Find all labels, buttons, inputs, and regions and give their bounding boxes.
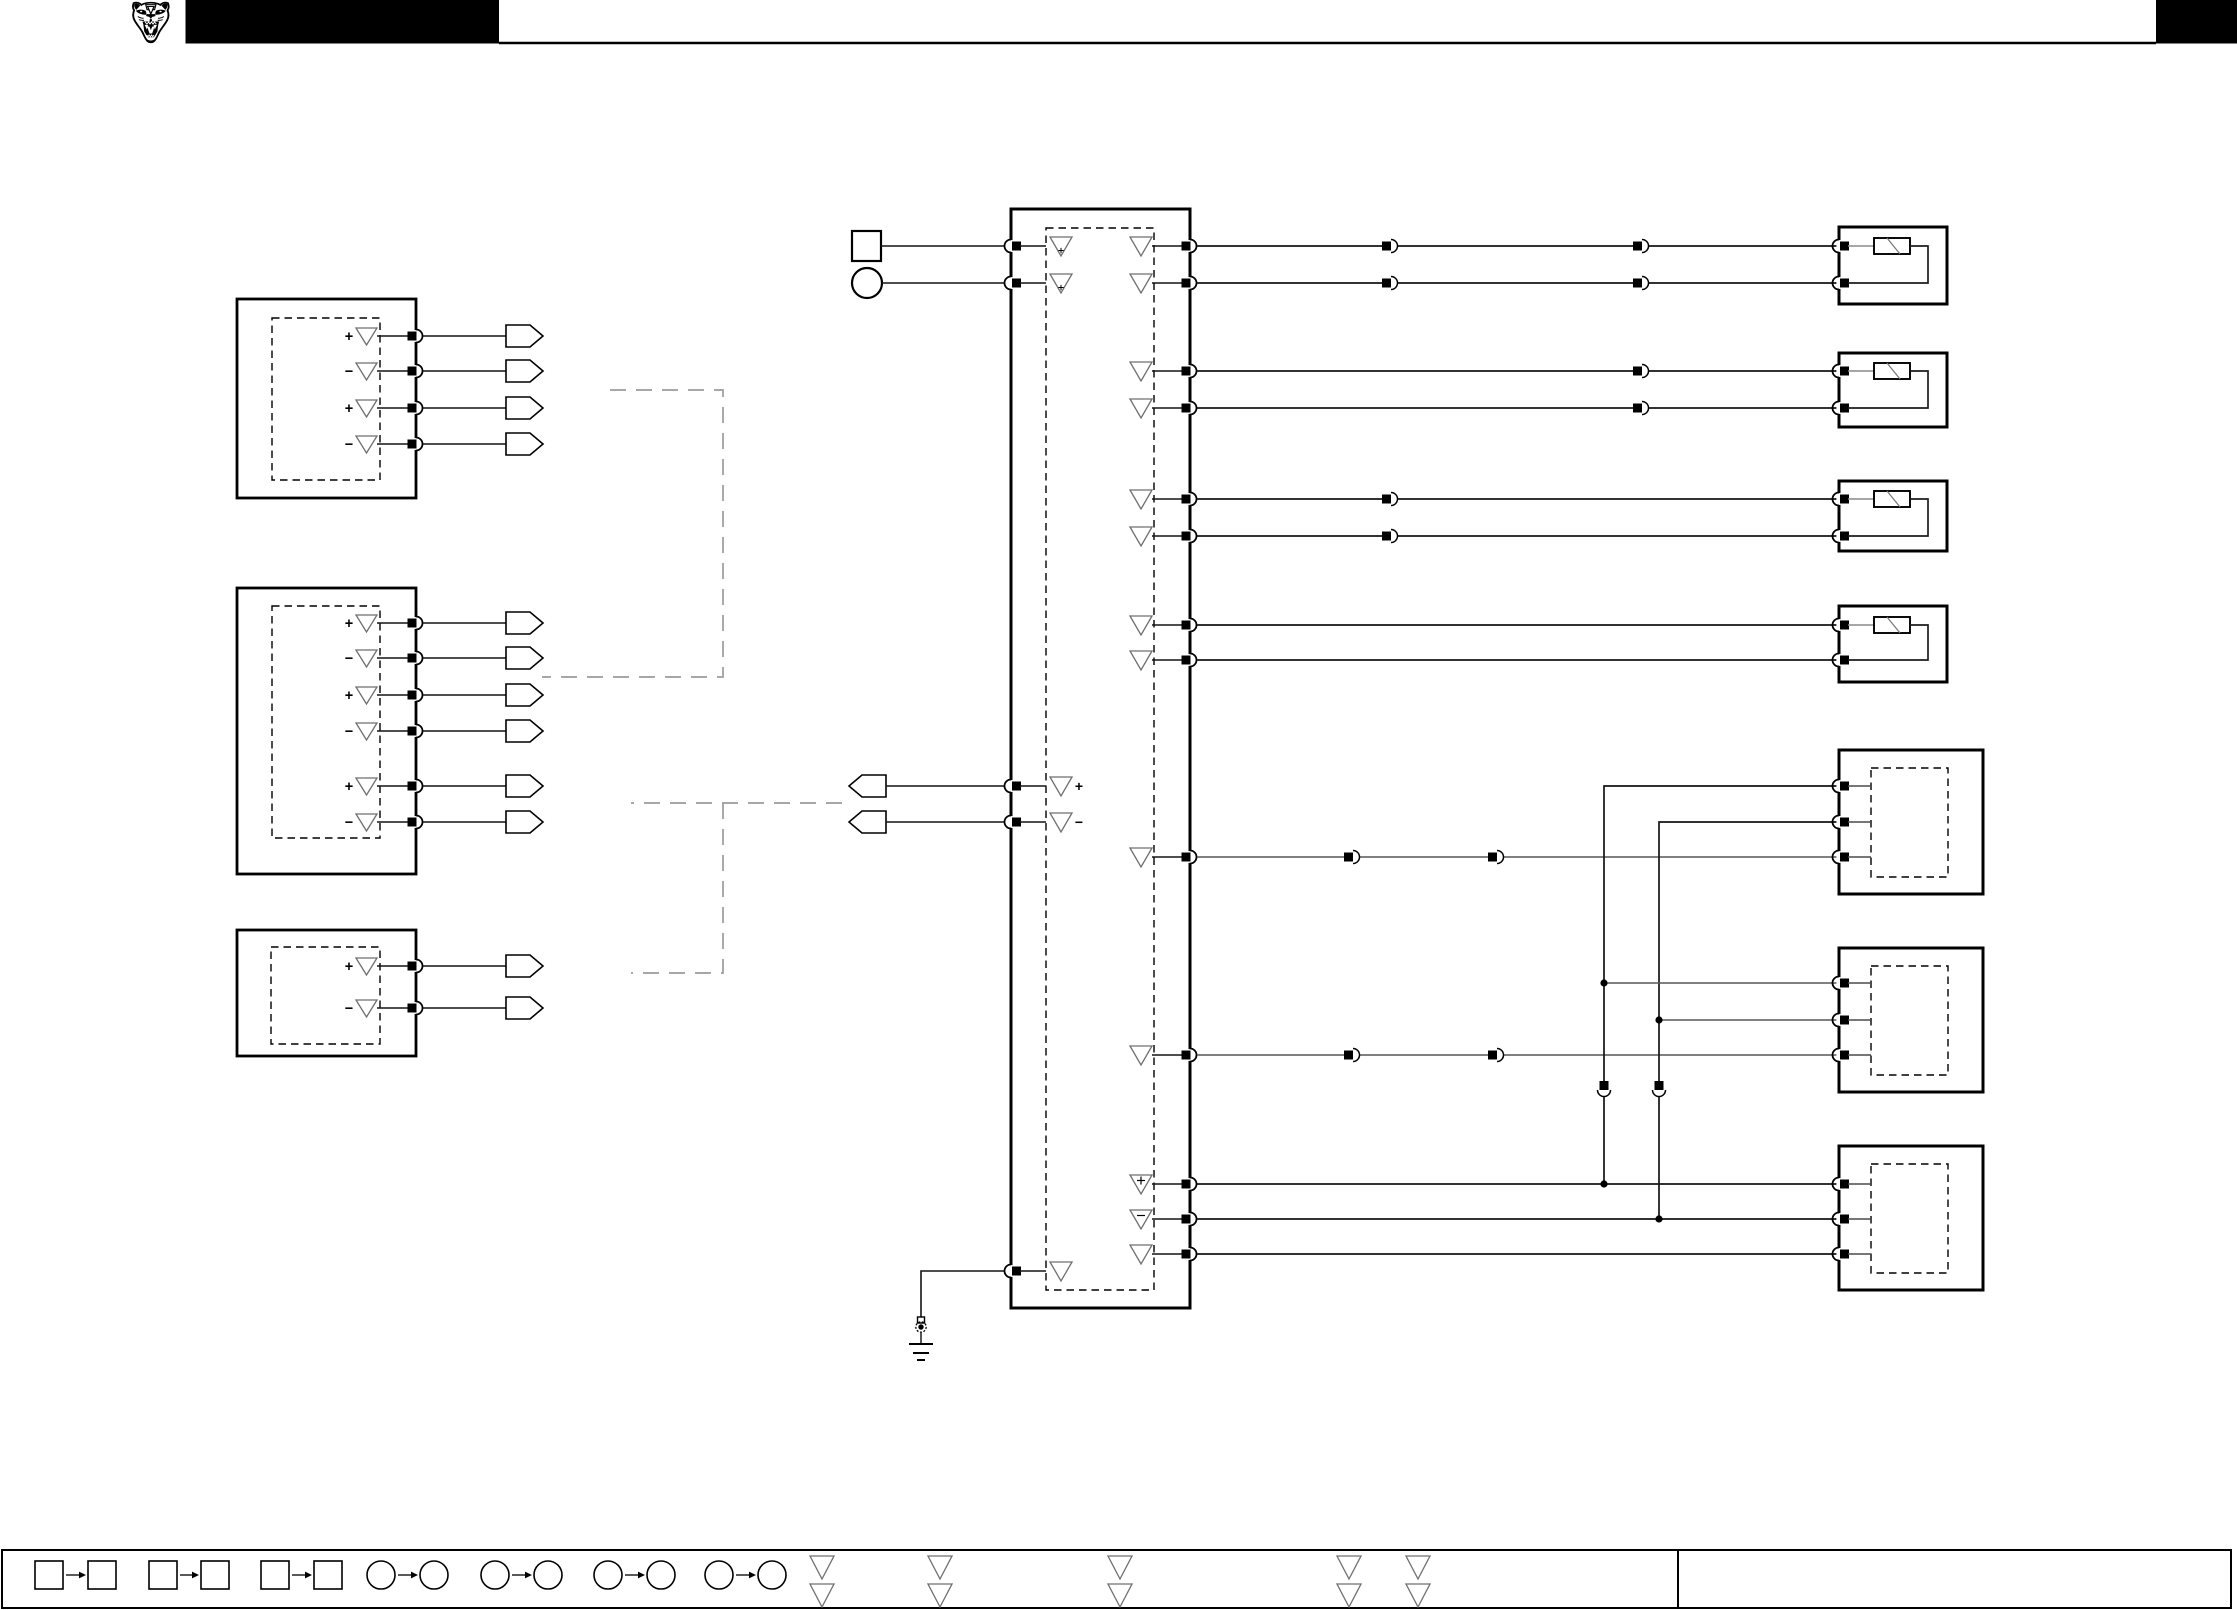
wire: output row y408 triangle to pad <box>1152 407 1182 409</box>
component box B1 (top left) outline <box>237 299 416 498</box>
wire: speaker SP1 (front) pin 3 into speaker <box>1848 856 1871 858</box>
in-line connector on amplifier out to tweeter T1 - at x1641 <box>1633 277 1649 290</box>
wire: component box B2 (middle left) pin 1 to pad <box>377 622 408 624</box>
component box B3 (bottom left) internal dashed boundary <box>271 947 380 1044</box>
wire: component box B2 (middle left) pin 2 to pad <box>377 657 408 659</box>
amplifier internal pin triangle (battery feed) <box>1050 237 1072 256</box>
off-page arrow input + (audio in) <box>849 775 886 797</box>
off-page connector arrow for component box B3 (bottom left) pin 2 <box>506 997 543 1019</box>
wire: battery feed pad into module <box>1020 245 1046 247</box>
wire: output row y1254 triangle to pad <box>1152 1253 1182 1255</box>
speaker SP2 (middle) pin 1 pad <box>1833 977 1849 990</box>
junction V2 / SP3 - wire <box>1655 1215 1662 1222</box>
wire: output row y1184 triangle to pad <box>1152 1183 1182 1185</box>
svg-text:+: + <box>345 329 353 345</box>
amplifier right pin pad: output row y660 <box>1182 654 1197 667</box>
tweeter T2 voice coil element <box>1874 363 1910 379</box>
speaker SP2 (middle) internal dashed boundary <box>1871 966 1948 1075</box>
wire: component box B2 (middle left) pin 1 pad to off-page arrow <box>423 622 506 624</box>
in-line connector on bus V1 <box>1598 1081 1611 1097</box>
tiny + inside triangle (battery feed) <box>1058 250 1063 252</box>
component box B2 (middle left) pin 6 pad and connector bump <box>408 816 423 829</box>
wire: component box B2 (middle left) pin 4 to pad <box>377 730 408 732</box>
component box B1 (top left) pin 2 pad and connector bump <box>408 365 423 378</box>
component box B1 (top left) pin 4 triangle <box>356 436 377 453</box>
amplifier right pin pad: output row y857 <box>1182 851 1197 864</box>
component box B2 (middle left) pin 5 triangle <box>356 778 377 795</box>
wire: amplifier out to tweeter T4 - <box>1197 659 1839 661</box>
off-page connector arrow for component box B2 (middle left) pin 2 <box>506 647 543 669</box>
wire: amplifier out to tweeter T1 + <box>1197 245 1839 247</box>
wire: amplifier out + to speaker SP3 <box>1197 1183 1839 1185</box>
wire: bus vertical V1 (speaker feed +) <box>1604 786 1839 1184</box>
wire: component box B1 (top left) pin 1 pad to off-page arrow <box>423 335 506 337</box>
wire: component box B1 (top left) pin 4 to pad <box>377 443 408 445</box>
component box B1 (top left) pin 1 pad and connector bump <box>408 330 423 343</box>
svg-text:+: + <box>1075 778 1083 794</box>
junction V1 / SP2 branch <box>1600 979 1607 986</box>
wire: output row y625 triangle to pad <box>1152 624 1182 626</box>
amplifier internal pin triangle (output row y371) <box>1130 362 1152 381</box>
legend: connector square pair 2 <box>149 1561 229 1589</box>
tweeter T4 outline <box>1839 606 1947 682</box>
speaker SP3 (rear) internal dashed boundary <box>1871 1164 1948 1273</box>
input symbol: circle (power return) <box>852 268 882 298</box>
component box B2 (middle left) pin 1 triangle <box>356 615 377 632</box>
wire: component box B1 (top left) pin 3 to pad <box>377 407 408 409</box>
wire: component box B3 (bottom left) pin 1 pad to off-page arrow <box>423 965 506 967</box>
in-line connector on amplifier out to tweeter T1 + at x1641 <box>1633 240 1649 253</box>
wire: speaker SP2 (middle) pin 3 into speaker <box>1848 1054 1871 1056</box>
amplifier internal pin triangle (output row y1055) <box>1130 1046 1152 1065</box>
component box B3 (bottom left) pin 1 triangle <box>356 958 377 975</box>
amplifier left pin: audio in - pad <box>1005 816 1021 829</box>
wire: speaker SP3 (rear) pin 1 into speaker <box>1848 1183 1871 1185</box>
Jaguar growler logo <box>133 3 169 43</box>
amplifier right pin pad: output row y1184 <box>1182 1178 1197 1191</box>
wire: speaker SP2 (middle) pin 2 into speaker <box>1848 1019 1871 1021</box>
junction V1 / SP3 + wire <box>1600 1180 1607 1187</box>
speaker SP1 (front) pin 2 pad <box>1833 816 1849 829</box>
wire: audio input - to amplifier <box>886 821 1004 823</box>
gray dashed reference route 1 <box>542 390 723 677</box>
legend: splice triangle column 3 <box>1108 1556 1132 1607</box>
wire: amplifier out to tweeter T2 + <box>1197 370 1839 372</box>
component box B3 (bottom left) pin 2 pad and connector bump <box>408 1002 423 1015</box>
amplifier module outline <box>1011 209 1190 1308</box>
wire: amplifier out to tweeter T3 + <box>1197 498 1839 500</box>
wire: amplifier signal to speaker SP1 <box>1197 856 1839 858</box>
component box B1 (top left) pin 2 triangle <box>356 363 377 380</box>
tweeter T4 pin pads <box>1833 619 1849 667</box>
ground symbol G <box>909 1344 933 1360</box>
legend: splice triangle column 2 <box>928 1556 952 1607</box>
speaker SP2 (middle) pin 2 pad <box>1833 1014 1849 1027</box>
amplifier internal pin triangle (output row y625) <box>1130 616 1152 635</box>
gray dashed reference route 2 (lower elbow) <box>631 803 723 973</box>
svg-text:+: + <box>345 616 353 632</box>
off-page connector arrow for component box B1 (top left) pin 1 <box>506 325 543 347</box>
amplifier internal pin triangle (ground pin) <box>1050 1262 1072 1281</box>
wire: component box B3 (bottom left) pin 2 pad to off-page arrow <box>423 1007 506 1009</box>
legend bar divider <box>1677 1550 1679 1608</box>
svg-text:+: + <box>345 401 353 417</box>
legend: connector square pair 1 <box>35 1561 116 1589</box>
svg-text:−: − <box>345 364 353 380</box>
header horizontal rule <box>499 42 2156 45</box>
off-page connector arrow for component box B3 (bottom left) pin 1 <box>506 955 543 977</box>
wire: battery return pad into module <box>1020 282 1046 284</box>
off-page connector arrow for component box B2 (middle left) pin 5 <box>506 775 543 797</box>
wire: component box B2 (middle left) pin 2 pad to off-page arrow <box>423 657 506 659</box>
tiny + inside triangle (battery return) <box>1058 287 1063 289</box>
wire: V2 branch to speaker SP2 pin2 <box>1659 1019 1839 1021</box>
in-line connector on amplifier signal to speaker SP1 at x1352 <box>1344 851 1360 864</box>
svg-text:−: − <box>1075 814 1083 830</box>
wire: tweeter T4 pin1 to voice coil <box>1848 624 1874 626</box>
amplifier internal pin triangle (output row y283) <box>1130 274 1152 293</box>
component box B2 (middle left) pin 2 triangle <box>356 650 377 667</box>
svg-text:−: − <box>345 437 353 453</box>
tweeter T1 pin pads <box>1833 240 1849 290</box>
amplifier right pin pad: output row y283 <box>1182 277 1197 290</box>
wire: output row y246 triangle to pad <box>1152 245 1182 247</box>
speaker SP3 (rear) pin 1 pad <box>1833 1178 1849 1191</box>
wire: square input to amplifier pin <box>881 245 1004 247</box>
amplifier right pin pad: output row y625 <box>1182 619 1197 632</box>
tweeter T2 outline <box>1839 353 1947 427</box>
tweeter T4 voice coil element <box>1874 617 1910 633</box>
legend: connector circle pair 2 <box>481 1561 562 1589</box>
amplifier internal pin triangle (output row y499) <box>1130 490 1152 509</box>
tweeter T3 outline <box>1839 481 1947 551</box>
wire: tweeter T1 coil loop to pin2 <box>1848 246 1928 283</box>
speaker SP3 (rear) outline <box>1839 1146 1983 1290</box>
in-line connector on amplifier out to tweeter T2 - at x1641 <box>1633 402 1649 415</box>
in-line connector on amplifier signal to speaker SP1 at x1496 <box>1488 851 1504 864</box>
svg-text:+: + <box>345 688 353 704</box>
amplifier internal pin triangle (output row y536) <box>1130 527 1152 546</box>
- mark inside triangle (output row y1219) <box>1137 1215 1145 1217</box>
amplifier right pin pad: output row y1219 <box>1182 1213 1197 1226</box>
amplifier right pin pad: output row y1055 <box>1182 1049 1197 1062</box>
amplifier left pin: audio in + pad <box>1005 780 1021 793</box>
wire: output row y371 triangle to pad <box>1152 370 1182 372</box>
amplifier right pin pad: output row y536 <box>1182 530 1197 543</box>
wire: output row y283 triangle to pad <box>1152 282 1182 284</box>
component box B1 (top left) pin 3 pad and connector bump <box>408 402 423 415</box>
wire: ground pin pad into module <box>1020 1270 1046 1272</box>
speaker SP3 (rear) pin 3 pad <box>1833 1248 1849 1261</box>
amplifier left pin: battery feed pad <box>1005 240 1021 253</box>
svg-text:+: + <box>345 959 353 975</box>
component box B3 (bottom left) pin 1 pad and connector bump <box>408 960 423 973</box>
wire: output row y536 triangle to pad <box>1152 535 1182 537</box>
legend: connector circle pair 4 <box>705 1561 786 1589</box>
wire: speaker SP1 (front) pin 1 into speaker <box>1848 785 1871 787</box>
amplifier right pin pad: output row y499 <box>1182 493 1197 506</box>
in-line connector on amplifier out to tweeter T2 + at x1641 <box>1633 365 1649 378</box>
off-page connector arrow for component box B1 (top left) pin 3 <box>506 397 543 419</box>
amplifier internal pin triangle (output row y246) <box>1130 237 1152 256</box>
speaker SP1 (front) pin 1 pad <box>1833 780 1849 793</box>
wire: circle input to amplifier pin <box>882 282 1004 284</box>
component box B2 (middle left) pin 2 pad and connector bump <box>408 652 423 665</box>
wire: amplifier out to tweeter T1 - <box>1197 282 1839 284</box>
component box B2 (middle left) pin 5 pad and connector bump <box>408 780 423 793</box>
wire: component box B2 (middle left) pin 6 to pad <box>377 821 408 823</box>
svg-text:+: + <box>345 779 353 795</box>
legend: splice triangle column 1 <box>810 1556 834 1607</box>
svg-text:−: − <box>345 1001 353 1017</box>
in-line connector on amplifier signal to speaker SP2 at x1352 <box>1344 1049 1360 1062</box>
tweeter T1 voice coil element <box>1874 238 1910 254</box>
tweeter T2 pin pads <box>1833 365 1849 415</box>
legend bar frame <box>2 1550 2231 1608</box>
amplifier internal pin triangle (output row y408) <box>1130 399 1152 418</box>
wire: speaker SP1 (front) pin 2 into speaker <box>1848 821 1871 823</box>
legend: connector square pair 3 <box>261 1561 342 1589</box>
off-page connector arrow for component box B1 (top left) pin 2 <box>506 360 543 382</box>
component box B3 (bottom left) pin 2 triangle <box>356 1000 377 1017</box>
amplifier internal pin triangle (output row y1219) <box>1130 1210 1152 1229</box>
wire: amplifier out to tweeter T4 + <box>1197 624 1839 626</box>
wire: tweeter T4 coil loop to pin2 <box>1848 625 1928 660</box>
wire: component box B2 (middle left) pin 3 to pad <box>377 694 408 696</box>
speaker SP1 (front) internal dashed boundary <box>1871 768 1948 877</box>
amplifier internal pin triangle (battery return) <box>1050 274 1072 293</box>
component box B1 (top left) pin 3 triangle <box>356 400 377 417</box>
wire: audio input + to amplifier <box>886 785 1004 787</box>
legend: connector circle pair 1 <box>367 1561 448 1589</box>
wire: amplifier ground pin to ground stud <box>921 1271 1004 1317</box>
amplifier internal pin triangle (output row y857) <box>1130 848 1152 867</box>
wire: component box B1 (top left) pin 3 pad to off-page arrow <box>423 407 506 409</box>
wire: component box B2 (middle left) pin 4 pad to off-page arrow <box>423 730 506 732</box>
tweeter T1 outline <box>1839 227 1947 304</box>
wire: component box B3 (bottom left) pin 1 to pad <box>377 965 408 967</box>
amplifier internal pin triangle (output row y1184) <box>1130 1175 1152 1194</box>
tweeter T3 voice coil element <box>1874 491 1910 507</box>
wire: V1 branch to speaker SP2 pin1 <box>1604 982 1839 984</box>
component box B3 (bottom left) outline <box>237 930 416 1056</box>
component box B2 (middle left) pin 4 triangle <box>356 723 377 740</box>
tweeter T3 pin pads <box>1833 493 1849 543</box>
component box B2 (middle left) pin 4 pad and connector bump <box>408 725 423 738</box>
off-page connector arrow for component box B2 (middle left) pin 6 <box>506 811 543 833</box>
speaker SP2 (middle) outline <box>1839 948 1983 1092</box>
component box B2 (middle left) pin 3 pad and connector bump <box>408 689 423 702</box>
junction V2 / SP2 branch <box>1655 1016 1662 1023</box>
wire: component box B1 (top left) pin 1 to pad <box>377 335 408 337</box>
in-line connector on bus V2 <box>1653 1081 1666 1097</box>
gray dashed reference route 2 (upper run) <box>631 802 842 804</box>
legend: splice triangle column 5 <box>1406 1556 1430 1607</box>
wire: output row y857 triangle to pad <box>1152 856 1182 858</box>
speaker SP3 (rear) pin 2 pad <box>1833 1213 1849 1226</box>
wire: audio in - pad into module <box>1020 821 1046 823</box>
amplifier left pin: battery return pad <box>1005 277 1021 290</box>
off-page connector arrow for component box B2 (middle left) pin 3 <box>506 684 543 706</box>
amplifier internal pin triangle (audio in -) <box>1050 813 1072 832</box>
legend: connector circle pair 3 <box>594 1561 675 1589</box>
wire: tweeter T3 pin1 to voice coil <box>1848 498 1874 500</box>
amplifier right pin pad: output row y1254 <box>1182 1248 1197 1261</box>
in-line connector on amplifier out to tweeter T3 + at x1390 <box>1382 493 1398 506</box>
in-line connector on amplifier out to tweeter T3 - at x1390 <box>1382 530 1398 543</box>
wire: tweeter T1 pin1 to voice coil <box>1848 245 1874 247</box>
wire: output row y660 triangle to pad <box>1152 659 1182 661</box>
component box B1 (top left) pin 4 pad and connector bump <box>408 438 423 451</box>
wire: component box B1 (top left) pin 4 pad to off-page arrow <box>423 443 506 445</box>
speaker SP1 (front) outline <box>1839 750 1983 894</box>
in-line connector on amplifier out to tweeter T1 - at x1390 <box>1382 277 1398 290</box>
wire: speaker SP3 (rear) pin 2 into speaker <box>1848 1218 1871 1220</box>
header title block (redacted black bar) <box>186 0 500 44</box>
wire: component box B2 (middle left) pin 6 pad to off-page arrow <box>423 821 506 823</box>
amplifier right pin pad: output row y371 <box>1182 365 1197 378</box>
wire: tweeter T2 coil loop to pin2 <box>1848 371 1928 408</box>
speaker SP2 (middle) pin 3 pad <box>1833 1049 1849 1062</box>
wire: component box B1 (top left) pin 2 to pad <box>377 370 408 372</box>
wire: amplifier out to tweeter T3 - <box>1197 535 1839 537</box>
wire: speaker SP2 (middle) pin 1 into speaker <box>1848 982 1871 984</box>
component box B1 (top left) internal dashed boundary <box>272 318 380 480</box>
wire: component box B3 (bottom left) pin 2 to pad <box>377 1007 408 1009</box>
component box B1 (top left) pin 1 triangle <box>356 328 377 345</box>
speaker SP1 (front) pin 3 pad <box>1833 851 1849 864</box>
amplifier right pin pad: output row y246 <box>1182 240 1197 253</box>
wire: speaker SP3 (rear) pin 3 into speaker <box>1848 1253 1871 1255</box>
in-line connector on amplifier out to tweeter T1 + at x1390 <box>1382 240 1398 253</box>
off-page connector arrow for component box B2 (middle left) pin 1 <box>506 612 543 634</box>
wire: output row y1055 triangle to pad <box>1152 1054 1182 1056</box>
wire: amplifier signal to speaker SP2 <box>1197 1054 1839 1056</box>
amplifier internal dashed boundary <box>1046 228 1154 1290</box>
svg-text:−: − <box>345 815 353 831</box>
wire: output row y499 triangle to pad <box>1152 498 1182 500</box>
wire: amplifier signal to speaker SP3 <box>1197 1253 1839 1255</box>
amplifier left pin: ground pin pad <box>1005 1265 1021 1278</box>
off-page arrow input - (audio in) <box>849 811 886 833</box>
wire: component box B2 (middle left) pin 5 to pad <box>377 785 408 787</box>
component box B2 (middle left) outline <box>237 588 416 874</box>
component box B2 (middle left) pin 3 triangle <box>356 687 377 704</box>
wire: amplifier out to tweeter T2 - <box>1197 407 1839 409</box>
wire: component box B1 (top left) pin 2 pad to off-page arrow <box>423 370 506 372</box>
wire: component box B2 (middle left) pin 3 pad to off-page arrow <box>423 694 506 696</box>
svg-text:−: − <box>345 651 353 667</box>
off-page connector arrow for component box B1 (top left) pin 4 <box>506 433 543 455</box>
wire: component box B2 (middle left) pin 5 pad to off-page arrow <box>423 785 506 787</box>
wire: bus vertical V2 (speaker feed -) <box>1659 822 1839 1219</box>
in-line connector on amplifier signal to speaker SP2 at x1496 <box>1488 1049 1504 1062</box>
+ mark inside triangle (output row y1184) <box>1137 1180 1145 1182</box>
header page-number block (redacted black bar) <box>2156 0 2237 44</box>
amplifier internal pin triangle (audio in +) <box>1050 777 1072 796</box>
wire: audio in + pad into module <box>1020 785 1046 787</box>
component box B2 (middle left) pin 1 pad and connector bump <box>408 617 423 630</box>
ground stud eyelet <box>916 1317 926 1344</box>
input symbol: square (power feed) <box>852 231 881 261</box>
component box B2 (middle left) pin 6 triangle <box>356 814 377 831</box>
amplifier internal pin triangle (output row y1254) <box>1130 1245 1152 1264</box>
wire: output row y1219 triangle to pad <box>1152 1218 1182 1220</box>
component box B2 (middle left) internal dashed boundary <box>272 606 380 838</box>
wire: tweeter T3 coil loop to pin2 <box>1848 499 1928 536</box>
off-page connector arrow for component box B2 (middle left) pin 4 <box>506 720 543 742</box>
amplifier internal pin triangle (output row y660) <box>1130 651 1152 670</box>
amplifier right pin pad: output row y408 <box>1182 402 1197 415</box>
wire: amplifier out - to speaker SP3 <box>1197 1218 1839 1220</box>
legend: splice triangle column 4 <box>1337 1556 1361 1607</box>
svg-text:−: − <box>345 724 353 740</box>
wire: tweeter T2 pin1 to voice coil <box>1848 370 1874 372</box>
